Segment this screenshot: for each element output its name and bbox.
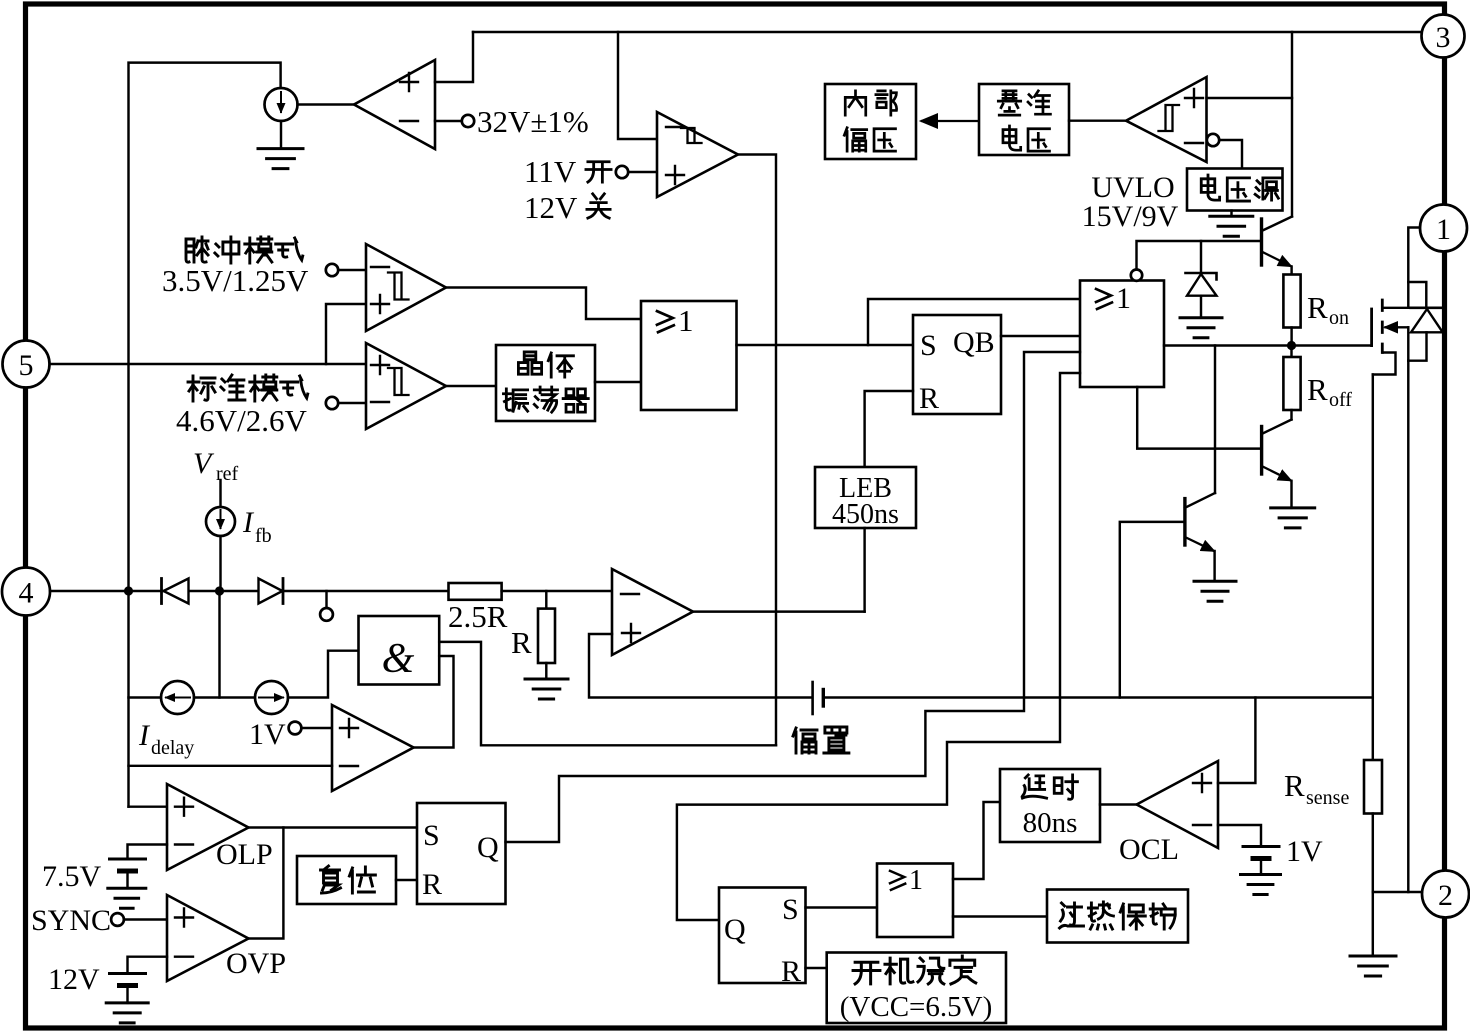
ground under voltage source [1230,211,1232,217]
terminal 32V [462,115,474,127]
wire comparator output to AND gate [414,656,454,748]
svg-text:1: 1 [678,303,694,338]
svg-text:(VCC=6.5V): (VCC=6.5V) [840,991,993,1023]
svg-text:S: S [782,893,799,926]
zener clamp diode D3 [1200,241,1202,273]
op-amp 32V comparator [354,60,435,149]
battery 7.5V [110,858,146,861]
current source Idelay [161,681,194,714]
svg-text:5: 5 [19,349,34,382]
svg-text:4: 4 [19,577,34,610]
OR gate U9 [877,864,953,938]
wire oscillator to OR gate [595,381,641,383]
svg-text:1: 1 [1436,213,1451,246]
svg-text:1: 1 [1116,282,1131,315]
wire error amp output [693,610,865,612]
wire OLP output to latch S [249,826,418,828]
svg-text:S: S [920,329,937,362]
battery 12V [110,972,146,975]
ground under 7.5V battery [126,873,128,888]
box 电压源 voltage source [1187,169,1283,211]
wire pulse comparator output to OR gate [446,288,641,320]
transistor Q2 (turn-off) [1290,410,1292,420]
ground under 1V battery [1260,861,1262,875]
wire latch Q to driver OR input [506,352,1081,842]
wire OCL output to delay box [1100,803,1137,805]
wire latch R to startup box [806,967,827,969]
wire OCL - input to 1V battery [1218,825,1261,847]
wire 1V source to AND gate [288,651,359,698]
svg-text:R: R [1307,290,1328,325]
svg-text:12V: 12V [524,190,578,225]
wire comparator output down long vertical [738,155,776,746]
svg-text:delay: delay [151,737,194,759]
pin 2 [1422,871,1469,918]
svg-text:OVP: OVP [226,947,286,980]
box 内部偏压 internal bias [825,84,916,159]
svg-text:Q: Q [724,913,746,946]
svg-text:1: 1 [909,865,923,896]
wire latch S to OR gate [806,906,878,908]
diode D1 [160,579,163,604]
wire OLP - input to 7.5V battery [128,845,168,860]
wire branch up to driver OR [868,299,1080,345]
SR latch U4 [913,315,1001,414]
svg-text:OCL: OCL [1119,833,1179,866]
svg-text:Q: Q [477,831,499,864]
wire bubble to Q-on base [1137,241,1262,270]
comparator UVLO [1126,77,1207,162]
svg-text:sense: sense [1306,787,1349,809]
wire drain branch to body diode cathode [1408,282,1426,308]
svg-text:&: & [382,636,415,682]
svg-text:4.6V/2.6V: 4.6V/2.6V [176,403,308,438]
wire pin5 to standard comparator [50,363,367,365]
terminal 11V [616,166,628,178]
ground under current source [280,121,282,149]
wire comparator + input to top rail [435,32,473,82]
wire stem to resistor R [545,591,547,609]
resistor Roff [1290,346,1292,358]
label 标准模式 [188,376,215,401]
pin 4 [2,568,50,616]
pin 3 [1422,15,1465,58]
svg-text:3.5V/1.25V: 3.5V/1.25V [162,263,309,298]
svg-text:SYNC: SYNC [31,904,111,937]
wire pin4 line [50,590,449,592]
box 过热保护 thermal protection [1047,890,1188,943]
wire LEB bottom to PWM comparator output [863,528,865,612]
svg-text:R: R [919,382,939,415]
wire left feedback vertical [129,63,281,807]
wire - input from left vertical [129,765,333,767]
ground under Q2 emitter [1290,481,1292,508]
wire gate drive line [1164,344,1372,346]
wire OVP output joins OLP output [249,828,284,939]
wire reference to bias with arrow [922,120,979,122]
terminal UVLO - input bubble [1207,134,1219,146]
wire VCC rail from top [1291,32,1293,217]
resistor Rsense [1364,760,1382,814]
label 偏置 [793,728,817,753]
box 复位 reset [297,856,396,904]
wire pulse - input [338,269,366,271]
node gate-drive junction [1287,341,1296,350]
wire between sources [194,696,255,698]
node Vref junction [215,586,224,595]
wire to + input [301,727,332,729]
MOSFET M1 gate bar [1370,309,1373,346]
wire UVLO output to reference box [1069,119,1126,121]
pin 1 [1420,205,1467,252]
MOSFET source stub [1373,353,1396,375]
body diode D4 [1411,306,1444,309]
resistor R [538,609,555,663]
wire OVP - input to 12V battery [128,957,168,974]
svg-text:1V: 1V [1286,835,1323,868]
terminal standard mode - input [326,397,338,409]
svg-text:7.5V: 7.5V [42,860,102,893]
comparator OCL [1137,761,1218,848]
svg-text:32V±1%: 32V±1% [477,104,589,139]
diode D2 [259,579,283,604]
svg-text:S: S [423,819,440,852]
svg-text:1V: 1V [249,718,286,751]
wire + input to bias line [589,634,811,698]
wire std comparator output [446,385,496,387]
wire Q2 base from driver OR [1137,387,1261,449]
box 基准电压 reference voltage [979,84,1069,155]
comparator U2 11V on / 12V off [657,112,738,197]
wire QB output to driver OR [1001,335,1080,337]
wire to error amp - input [502,590,612,592]
wire std - input [338,402,366,404]
wire driver OR to Q-latch chain [677,373,1080,920]
wire UVLO - input to voltage source box [1219,140,1242,169]
wire SYNC to OVP + [124,918,167,920]
AND gate U6 [359,616,440,685]
wire Q3 base to bias line [1120,522,1185,698]
wire - input from top rail [618,32,657,139]
wire UVLO + input to VCC rail [1207,97,1293,99]
OR gate driver U5 [1080,281,1164,388]
wire current source to comparator [298,103,355,105]
wire OLP + input [129,805,168,807]
current source 1V charge [255,681,288,714]
wire Ifb to pin4 node and down to Idelay line [219,536,221,591]
OR gate U3 [641,301,737,410]
svg-text:2: 2 [1438,879,1453,912]
MOSFET body stub with arrow [1386,326,1409,328]
node pin4/left-vertical junction [124,586,133,595]
ground under Q3 emitter [1213,551,1215,581]
ground under 12V battery [126,988,128,1003]
battery 1V [1243,845,1279,848]
comparator standard mode [366,343,446,429]
wire + input [628,171,657,173]
MOSFET drain stub [1384,307,1409,309]
transistor Q1 (turn-on) [1260,219,1263,265]
svg-text:OLP: OLP [216,838,273,871]
wire reset to latch R [396,879,417,881]
box 晶体振荡器 crystal oscillator [496,345,595,421]
bubble inverted output on top [1131,270,1142,281]
wire OR output to delay box [953,802,1000,879]
box LEB 450ns [815,467,916,528]
terminal below pin4 line [325,591,327,608]
ground under R [545,663,547,679]
comparator OLP [167,784,249,870]
svg-text:R: R [1284,768,1305,803]
capacitor bias [811,682,814,714]
current source Ifb [206,507,235,536]
terminal 1V comparator + [289,722,302,735]
svg-text:11V: 11V [524,154,577,189]
wire AND output to 11V comparator net [439,642,776,745]
wire branch to pulse comparator + input [326,304,366,364]
svg-text:fb: fb [255,525,272,547]
wire OR output to latch S [737,344,914,346]
SR latch U7 [417,803,506,904]
comparator delay 1V [332,705,414,791]
svg-text:80ns: 80ns [1023,807,1078,839]
box 延时 80ns delay [1000,769,1100,842]
svg-text:R: R [1307,372,1328,407]
resistor 2.5R [449,583,502,600]
svg-text:QB: QB [953,326,995,359]
svg-text:R: R [422,868,442,901]
comparator PWM error [612,569,693,655]
wire LEB to latch R [865,391,913,467]
pin 5 [3,341,50,388]
wire source down to pin2 line [1407,361,1409,892]
comparator pulse mode [366,244,446,331]
ground below Rsense [1350,956,1396,976]
svg-text:15V/9V: 15V/9V [1082,200,1179,233]
wire OR to thermal box [953,915,1047,917]
wire bias line to Rsense [825,696,1373,698]
wire body to source corner [1407,327,1409,360]
svg-text:R: R [511,625,532,660]
wire emitter to Ron [1290,267,1292,275]
wire comparator - input to 32V terminal [435,120,462,122]
wire pin2 line [1373,891,1422,893]
comparator OVP [167,895,249,981]
MOSFET channel (dashed) [1381,300,1384,353]
terminal pulse mode - input [326,264,338,276]
wire OCL + input to sense line [1218,698,1255,784]
wire Rsense to pin2 and ground [1372,814,1374,957]
svg-text:2.5R: 2.5R [448,599,508,634]
latch U8 [719,888,806,984]
wire Vref stem [219,480,221,507]
wire Idelay line [129,696,162,698]
box 开机设定 startup setting [827,953,1006,1024]
svg-text:off: off [1329,389,1352,411]
wire top rail to pin 3 [473,31,1422,33]
terminal SYNC [111,913,124,926]
svg-text:on: on [1329,307,1349,329]
wire source to Rsense column [1372,375,1374,761]
svg-text:R: R [781,955,801,988]
svg-text:450ns: 450ns [832,499,899,530]
transistor Q3 (pull-down) [1214,346,1216,494]
current source I1 (32V ref) [265,88,298,121]
svg-text:12V: 12V [48,963,100,996]
label 脉冲模式 [186,237,208,262]
resistor Ron [1283,275,1300,328]
ground under clamp diode [1200,296,1202,318]
svg-text:3: 3 [1436,21,1451,54]
wire pin1 to drain [1408,228,1420,308]
